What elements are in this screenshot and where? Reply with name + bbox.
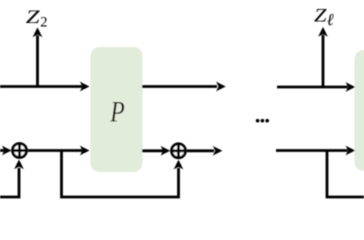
node label Z2 [26, 7, 48, 30]
wire feedback branch from node at x=61.5 down and right up into XOR2 [62, 151, 184, 198]
wire XOR1 to P [28, 146, 90, 156]
permutation block (right, cut off at edge) [355, 50, 364, 171]
wire XOR2 output arrow [187, 146, 222, 156]
svg-text:ℓ: ℓ [327, 10, 334, 29]
wire P lower output into XOR2 [142, 146, 170, 156]
node label Zl [314, 6, 334, 29]
wire upper-left rail into P [0, 82, 90, 92]
svg-text:Z: Z [314, 6, 327, 27]
wire lower-left input into XOR1 [0, 146, 12, 156]
wire upper-right rail into right P [277, 82, 355, 92]
wire right feedback branch down and off right edge [327, 151, 364, 198]
wire lower-right rail into right P [276, 146, 355, 156]
svg-text:P: P [109, 95, 124, 128]
output arrow Z2 (up) [33, 28, 43, 88]
svg-text:Z: Z [26, 7, 40, 28]
output arrow Zl (up) [318, 27, 328, 88]
permutation block P (left) [91, 47, 143, 172]
xor gate X1 [13, 144, 27, 158]
wire P upper output to the right [142, 82, 226, 92]
ellipsis dots [256, 119, 269, 123]
wire bottom-left feedback into XOR1 [0, 160, 24, 198]
xor gate X2 [172, 144, 186, 158]
svg-text:2: 2 [40, 15, 47, 31]
